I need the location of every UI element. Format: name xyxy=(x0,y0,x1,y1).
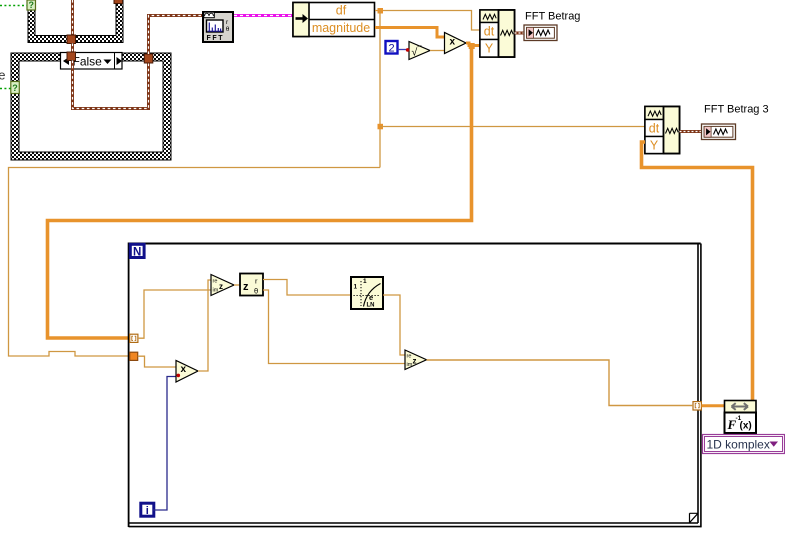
svg-text:ge: ge xyxy=(0,68,5,83)
svg-text:dt: dt xyxy=(484,25,495,39)
svg-text:FFT Betrag 3: FFT Betrag 3 xyxy=(704,104,769,116)
svg-text:(x): (x) xyxy=(740,421,752,432)
magnitude array wire to multiply xyxy=(375,28,445,38)
multiply 2 xyxy=(176,361,198,383)
junction dot df xyxy=(378,8,384,14)
junction dot multiply out xyxy=(469,43,475,49)
for loop border xyxy=(129,243,702,528)
svg-text:1: 1 xyxy=(354,284,358,291)
wire Z theta out down to triangle2 im xyxy=(263,290,405,364)
wire [] tunnel to re/im triangle im input xyxy=(138,290,211,338)
svg-text:Y: Y xyxy=(650,139,659,153)
tunnel T2 on case2 top border xyxy=(67,52,76,61)
svg-text:x: x xyxy=(181,364,187,375)
unbundle by name df / magnitude xyxy=(293,3,375,37)
tunnel T4 clipped at top edge xyxy=(114,0,123,4)
build waveform 2 xyxy=(645,107,680,154)
indexing tunnel [] right xyxy=(693,402,701,410)
svg-text:FFT: FFT xyxy=(207,35,225,42)
magnitude array wire down-left into loop [] tunnel xyxy=(48,46,472,339)
svg-text:False: False xyxy=(73,55,103,69)
wire sqrt to multiply xyxy=(430,50,445,52)
svg-text:θ: θ xyxy=(226,26,230,33)
svg-text:2: 2 xyxy=(388,43,394,55)
build waveform 1 xyxy=(480,10,515,57)
iteration terminal i xyxy=(141,503,154,517)
svg-text:1D komplex: 1D komplex xyxy=(707,438,770,452)
wire Z r out to LN xyxy=(263,280,351,296)
blue wire 2 to sqrt xyxy=(398,49,410,51)
wire multiply1 out to BW1 Y xyxy=(466,43,480,46)
solid tunnel orange left xyxy=(130,352,138,360)
error wire inside case 2 xyxy=(73,61,149,109)
svg-text:dt: dt xyxy=(649,122,660,136)
case structure 2 (False frame) xyxy=(11,53,172,161)
green boolean wire to case 1 selector xyxy=(0,5,27,7)
case structure 1 (upper, clipped at top) xyxy=(28,0,124,43)
wire triangle1 to Z block xyxy=(234,284,240,286)
FFT block xyxy=(203,12,233,42)
svg-text:magnitude: magnitude xyxy=(312,21,370,35)
wire df out to BW1 dt xyxy=(375,11,480,31)
wire df down xyxy=(379,11,381,168)
svg-text:z: z xyxy=(243,281,249,293)
blue wire i to multiply2 xyxy=(153,377,176,511)
re/im to complex triangle 2 xyxy=(405,350,427,370)
svg-text:?: ? xyxy=(12,83,18,93)
tunnel T1 on case1 bottom border xyxy=(67,35,76,44)
svg-text:Y: Y xyxy=(485,42,494,56)
complex to polar block Z xyxy=(240,274,263,296)
wire LN out to triangle2 re xyxy=(383,295,405,355)
square root function xyxy=(409,42,430,60)
error wire from tunnel T3 to FFT xyxy=(149,16,203,55)
enum constant 1D komplex xyxy=(703,435,785,454)
coercion dot sqrt input xyxy=(406,48,410,52)
svg-text:re: re xyxy=(213,279,218,285)
svg-text:?: ? xyxy=(28,0,34,10)
coercion dot multiply2 xyxy=(177,374,181,378)
error wire vertical into tunnel T1 xyxy=(71,0,74,35)
wire triangle2 out to right tunnel xyxy=(427,360,694,406)
waveform wire BW1 to indicator xyxy=(515,32,525,35)
case selector label "False" xyxy=(61,53,123,70)
svg-text:1: 1 xyxy=(363,278,367,285)
natural logarithm block xyxy=(351,277,383,309)
svg-text:e: e xyxy=(369,293,373,302)
indexing tunnel [] left xyxy=(130,334,138,342)
indicator FFT Betrag 3 xyxy=(702,104,769,140)
svg-text:z: z xyxy=(219,282,223,291)
complex waveform wire FFT to unbundle (magenta dashed) xyxy=(234,14,293,17)
array wire from iFFT up and to BW2 Y xyxy=(642,142,753,401)
inverse FFT block xyxy=(725,401,757,434)
numeric constant 2 xyxy=(386,41,398,55)
svg-text:i: i xyxy=(146,505,149,517)
svg-text:re: re xyxy=(407,354,412,360)
svg-text:df: df xyxy=(336,4,347,18)
svg-text:x: x xyxy=(450,37,456,48)
error wire between tunnels xyxy=(71,44,74,53)
svg-text:z: z xyxy=(413,357,417,366)
svg-text:im: im xyxy=(213,288,219,294)
green boolean wire to case 2 selector xyxy=(0,88,11,90)
svg-text:FFT Betrag: FFT Betrag xyxy=(525,11,580,23)
loop count terminal N xyxy=(130,244,144,258)
wire solid tunnel to multiply2 xyxy=(138,356,176,367)
array wire right tunnel to iFFT xyxy=(702,404,725,407)
selector terminal ? of case 2 xyxy=(11,82,19,94)
wire df long left and down to loop tunnel xyxy=(9,168,381,357)
multiply 1 xyxy=(445,33,467,54)
svg-text:N: N xyxy=(133,247,141,259)
svg-text:√: √ xyxy=(412,47,418,59)
indicator FFT Betrag xyxy=(524,11,580,41)
re/im to complex triangle 1 xyxy=(211,275,234,296)
wire multiply2 out up to re input xyxy=(198,280,211,371)
svg-text:θ: θ xyxy=(254,287,258,296)
tunnel T3 on case2 top border right xyxy=(144,54,153,63)
svg-text:LN: LN xyxy=(367,303,375,309)
selector terminal ? of case 1 xyxy=(27,0,36,10)
waveform wire BW2 to indicator 3 xyxy=(680,130,702,133)
junction dot df 2 xyxy=(378,124,384,130)
wire df to BW2 dt xyxy=(380,126,645,128)
